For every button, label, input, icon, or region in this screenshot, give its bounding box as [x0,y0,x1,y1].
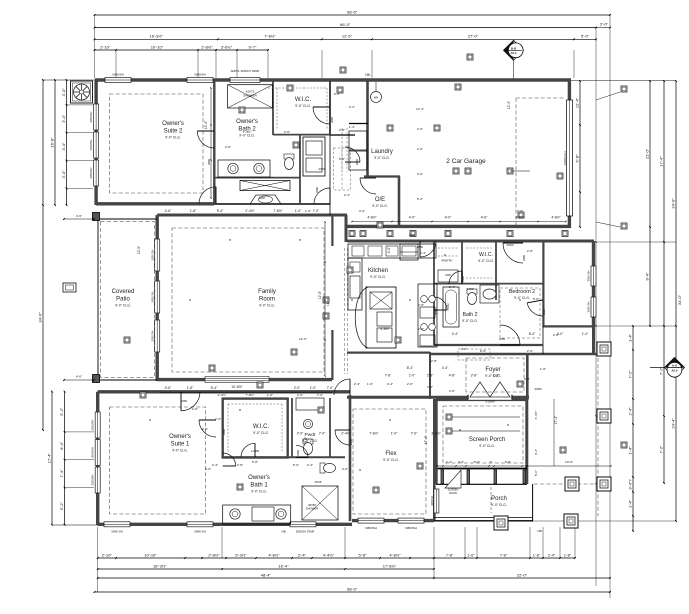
svg-text:4'-8½": 4'-8½" [268,552,280,557]
svg-text:7'-0": 7'-0" [319,432,326,436]
svg-text:3050/SH: 3050/SH [89,140,93,151]
svg-text:2'-4½": 2'-4½" [218,393,227,397]
svg-text:3050 SH: 3050 SH [587,302,591,313]
svg-text:12'-4": 12'-4" [416,107,424,111]
svg-text:10'-10": 10'-10" [144,552,157,557]
svg-text:48'-4": 48'-4" [261,572,272,577]
svg-text:2'-4": 2'-4" [449,285,455,289]
svg-text:8'-4": 8'-4" [407,366,414,370]
svg-text:7'-0": 7'-0" [317,393,323,397]
svg-text:17'-4": 17'-4" [658,156,663,167]
svg-text:2660: 2660 [330,117,334,123]
svg-text:2680: 2680 [499,337,505,341]
svg-text:Pwdr: Pwdr [305,432,316,438]
svg-text:7'-8½": 7'-8½" [246,393,255,397]
svg-text:SHOWER: SHOWER [243,94,257,98]
svg-text:2680: 2680 [207,159,211,165]
svg-text:5'-4": 5'-4" [417,197,423,201]
svg-text:4'-3½": 4'-3½" [534,411,538,420]
svg-text:16'-8": 16'-8" [49,137,54,148]
svg-text:9'-0" CLG.: 9'-0" CLG. [491,503,507,507]
svg-text:3'-4": 3'-4" [61,88,66,97]
svg-text:2660: 2660 [319,167,326,171]
svg-text:3'-4": 3'-4" [61,114,66,123]
svg-text:2880: 2880 [417,245,423,249]
svg-text:9'-0" CLG.: 9'-0" CLG. [253,431,269,435]
svg-text:1'-6": 1'-6" [540,367,546,371]
svg-text:1'-0": 1'-0" [305,209,311,213]
svg-text:34'-0": 34'-0" [37,312,42,323]
svg-text:6": 6" [490,460,493,464]
svg-text:ADDTL 30X60.5 TEMP: ADDTL 30X60.5 TEMP [231,69,260,73]
svg-text:1'-8": 1'-8" [187,386,194,390]
svg-text:1'-0": 1'-0" [295,209,302,213]
svg-text:5'-4": 5'-4" [211,386,218,390]
svg-text:12'-4": 12'-4" [507,100,511,109]
svg-text:4'-8½": 4'-8½" [380,327,390,331]
svg-text:10'-10": 10'-10" [151,44,164,49]
svg-text:17'-4": 17'-4" [554,415,558,424]
svg-text:2'-6": 2'-6" [225,145,231,149]
svg-text:4'-4": 4'-4" [387,382,393,386]
svg-text:4'-0": 4'-0" [445,216,452,220]
svg-text:2460: 2460 [461,276,465,282]
svg-text:4'-8½": 4'-8½" [551,216,561,220]
svg-text:5'-3½": 5'-3½" [235,552,247,557]
svg-text:3050/SH: 3050/SH [365,526,377,530]
svg-text:12'-0": 12'-0" [299,337,307,341]
svg-text:2'-10": 2'-10" [102,552,113,557]
svg-text:1'-0": 1'-0" [391,432,398,436]
svg-text:3050 SH: 3050 SH [151,331,155,342]
svg-text:2'-0": 2'-0" [417,147,423,151]
svg-text:16'-3½": 16'-3½" [153,563,167,568]
svg-text:3'-0": 3'-0" [284,130,290,134]
svg-text:9'-0" CLG.: 9'-0" CLG. [478,259,494,263]
svg-text:1'-8": 1'-8" [533,553,541,557]
svg-text:2'-8": 2'-8" [339,128,345,132]
svg-text:4'-0": 4'-0" [359,209,365,213]
svg-text:Patio: Patio [116,296,130,302]
svg-text:4'-6": 4'-6" [165,209,172,213]
svg-text:9'-0" CLG.: 9'-0" CLG. [374,156,390,160]
svg-text:68'-0": 68'-0" [347,9,358,14]
svg-text:9'-0" CLG.: 9'-0" CLG. [259,303,275,307]
svg-text:Porch: Porch [491,496,507,502]
svg-text:2-2080: 2-2080 [251,449,260,453]
svg-text:7'-0": 7'-0" [411,432,418,436]
svg-text:17'-8½": 17'-8½" [383,563,397,568]
svg-text:24'-0": 24'-0" [670,198,675,209]
svg-text:12'-4": 12'-4" [574,97,579,108]
svg-text:4'-8": 4'-8" [449,374,456,378]
svg-text:3050SH: 3050SH [430,496,434,506]
svg-text:24'-4": 24'-4" [670,418,675,429]
svg-text:7'-8": 7'-8" [500,553,508,557]
svg-text:2'-4": 2'-4" [420,251,426,255]
svg-text:4'-0": 4'-0" [342,467,348,471]
svg-text:1'-6": 1'-6" [467,553,475,557]
svg-text:2'-0": 2'-0" [600,22,609,27]
svg-text:9'-0" CLG.: 9'-0" CLG. [295,104,311,108]
svg-text:2'-4": 2'-4" [446,460,452,464]
svg-text:Bedroom 2: Bedroom 2 [509,289,535,295]
svg-text:3050 SH: 3050 SH [151,292,155,303]
svg-text:Room: Room [259,296,275,302]
svg-text:PANTRY: PANTRY [441,259,452,263]
svg-text:2680: 2680 [542,309,546,315]
svg-text:5'-0": 5'-0" [293,463,299,467]
svg-text:2660: 2660 [507,243,514,247]
svg-text:3040/SH: 3040/SH [194,73,206,77]
svg-text:66'-0": 66'-0" [340,22,351,27]
svg-text:5'-8": 5'-8" [252,460,258,464]
svg-text:10'-8½": 10'-8½" [231,385,243,389]
svg-text:7'-8": 7'-8" [446,553,454,557]
svg-text:2460: 2460 [296,450,300,456]
svg-text:2'-4": 2'-4" [354,382,360,386]
svg-text:3050/SH: 3050/SH [91,420,95,431]
svg-text:W.I.C.: W.I.C. [253,424,270,430]
svg-text:W.I.C.: W.I.C. [295,97,312,103]
svg-text:2680: 2680 [434,309,438,315]
svg-text:2'-0": 2'-0" [527,349,533,353]
svg-text:7'-0": 7'-0" [327,386,334,390]
svg-text:2'-0": 2'-0" [294,386,301,390]
svg-text:2'-0": 2'-0" [297,432,304,436]
svg-text:16'-4": 16'-4" [278,563,289,568]
svg-text:2'-0": 2'-0" [418,327,424,331]
svg-text:Family: Family [258,289,276,295]
svg-text:9'-7": 9'-7" [249,44,258,49]
svg-text:4'-8½": 4'-8½" [367,216,377,220]
svg-text:5'-0": 5'-0" [533,297,539,301]
svg-text:3050/SH TEMP: 3050/SH TEMP [296,530,315,534]
svg-text:3'-0": 3'-0" [524,377,530,381]
svg-text:17'-4": 17'-4" [424,435,428,444]
svg-text:9'-0" CLG.: 9'-0" CLG. [370,275,386,279]
svg-text:Suite 2: Suite 2 [164,128,183,134]
svg-text:9'-0" CLG.: 9'-0" CLG. [372,204,388,208]
svg-text:7'-4½": 7'-4½" [243,130,252,134]
svg-text:3040 SH: 3040 SH [111,530,123,534]
svg-text:8'-4": 8'-4" [644,272,649,281]
svg-text:Laundry: Laundry [371,149,393,155]
svg-text:7'-8½": 7'-8½" [369,432,379,436]
svg-text:2660: 2660 [259,196,265,200]
svg-text:3'-4": 3'-4" [212,463,218,467]
svg-text:2'-4": 2'-4" [458,460,464,464]
svg-text:3'-4"?: 3'-4"? [627,479,632,490]
svg-text:4'-8½": 4'-8½" [515,216,525,220]
svg-text:1'-4": 1'-4" [627,446,632,455]
svg-text:Flex: Flex [385,451,396,457]
svg-text:2680: 2680 [522,255,526,261]
svg-text:2460: 2460 [445,273,451,277]
svg-text:2'-4½": 2'-4½" [341,432,351,436]
svg-text:4'-4": 4'-4" [452,332,459,336]
svg-text:22'-0": 22'-0" [517,572,528,577]
svg-text:4'-6": 4'-6" [76,214,82,218]
svg-text:2'-8": 2'-8" [431,359,437,363]
svg-text:3050/SH: 3050/SH [89,168,93,179]
svg-text:4'-8": 4'-8" [449,389,455,393]
svg-text:9'-0" CLG.: 9'-0" CLG. [251,489,267,493]
svg-text:1'-0": 1'-0" [267,393,273,397]
svg-text:4'-0": 4'-0" [417,127,423,131]
svg-text:7'-2": 7'-2" [658,445,663,454]
svg-text:9'-0" CLG.: 9'-0" CLG. [485,374,501,378]
svg-text:2-2660: 2-2660 [485,400,495,404]
svg-text:9'-0" CLG.: 9'-0" CLG. [383,458,399,462]
svg-text:9'-0" CLG.: 9'-0" CLG. [479,444,495,448]
svg-text:5'-8": 5'-8" [574,154,579,163]
svg-text:1'-4": 1'-4" [627,333,632,342]
svg-text:4'-0": 4'-0" [409,216,416,220]
svg-text:5'-0": 5'-0" [581,34,590,39]
svg-text:2'-0": 2'-0" [215,417,221,421]
svg-text:12'-4": 12'-4" [204,120,208,129]
svg-text:9'-0" CLG.: 9'-0" CLG. [514,296,530,300]
svg-text:2680: 2680 [315,187,319,193]
svg-text:3'-6": 3'-6" [417,172,423,176]
svg-text:4'-6": 4'-6" [481,216,488,220]
svg-text:2'-2": 2'-2" [349,105,355,109]
svg-text:O/E: O/E [375,197,385,203]
svg-text:12'-5": 12'-5" [342,34,353,39]
svg-text:3'-4": 3'-4" [61,170,66,179]
svg-text:2'-8": 2'-8" [527,249,533,253]
svg-text:3050/SH: 3050/SH [89,112,93,123]
svg-text:1'-4": 1'-4" [627,499,632,508]
svg-text:8'-4": 8'-4" [529,332,536,336]
svg-text:4'-4": 4'-4" [442,366,449,370]
svg-text:3'-6½": 3'-6½" [221,44,233,49]
svg-text:8'-0": 8'-0" [480,349,486,353]
svg-text:3050 SH: 3050 SH [151,250,155,261]
svg-text:4545: 4545 [315,480,322,484]
svg-text:8'-4": 8'-4" [59,441,64,450]
svg-text:12'-0": 12'-0" [137,245,141,254]
svg-text:B-B: B-B [511,46,517,50]
svg-text:Owner's: Owner's [169,434,191,440]
svg-text:Screen Porch: Screen Porch [469,437,505,443]
svg-text:10'-8": 10'-8" [565,460,573,464]
svg-text:9'-0": 9'-0" [202,427,208,431]
svg-text:1'-8": 1'-8" [190,209,197,213]
svg-text:2680: 2680 [349,439,353,445]
svg-text:2'-4": 2'-4" [307,463,313,467]
svg-text:2680: 2680 [181,399,187,403]
svg-text:7'-2": 7'-2" [627,370,632,379]
svg-text:4'-6": 4'-6" [76,375,82,379]
svg-text:12'-0": 12'-0" [318,290,322,299]
svg-text:HB.: HB. [537,529,542,533]
svg-text:2'-6": 2'-6" [192,407,198,411]
svg-text:21'-0": 21'-0" [644,148,649,159]
svg-text:A5.0: A5.0 [672,368,678,372]
svg-text:3050 SH: 3050 SH [587,271,591,282]
svg-text:5'-0": 5'-0" [339,157,345,161]
svg-text:2'-8": 2'-8" [427,374,434,378]
svg-text:1'-4": 1'-4" [349,125,355,129]
svg-text:7'-8": 7'-8" [385,374,392,378]
svg-text:2'-4": 2'-4" [298,552,307,557]
svg-text:2460: 2460 [467,287,474,291]
svg-text:A-A: A-A [672,364,678,368]
svg-text:9'-0" CLG.: 9'-0" CLG. [302,439,318,443]
svg-text:9'-0" CLG.: 9'-0" CLG. [172,448,188,452]
svg-text:3050/SH: 3050/SH [91,475,95,486]
svg-text:WH: WH [374,96,378,100]
svg-text:2'-8": 2'-8" [418,303,424,307]
svg-text:1'-4": 1'-4" [582,332,589,336]
svg-text:1'-0": 1'-0" [409,374,416,378]
svg-text:Foyer: Foyer [485,367,500,373]
svg-text:5'-8": 5'-8" [505,460,511,464]
svg-text:2680: 2680 [355,159,359,165]
svg-text:2'-10": 2'-10" [100,44,111,49]
svg-text:4'-0": 4'-0" [461,347,467,351]
svg-text:7'-8½": 7'-8½" [264,34,276,39]
svg-text:2'-0": 2'-0" [553,333,559,337]
svg-text:5'-2": 5'-2" [59,407,64,416]
svg-text:Bath 2: Bath 2 [463,312,478,318]
svg-text:2'-0": 2'-0" [407,382,413,386]
svg-text:5'-0": 5'-0" [474,460,480,464]
svg-text:2680: 2680 [535,387,542,391]
svg-text:3040 SH: 3040 SH [194,530,206,534]
svg-text:2'-4": 2'-4" [548,553,556,557]
svg-text:5'-8": 5'-8" [359,552,368,557]
svg-text:3'-4": 3'-4" [534,449,538,455]
svg-text:Kitchen: Kitchen [368,268,388,274]
svg-text:7'-8½": 7'-8½" [273,209,283,213]
svg-text:2880: 2880 [409,233,415,237]
svg-text:Bath 1: Bath 1 [250,482,268,488]
svg-text:3040/SH: 3040/SH [112,73,124,77]
svg-text:HB.: HB. [281,530,286,534]
svg-text:2'-8": 2'-8" [427,385,433,389]
svg-text:3'-4": 3'-4" [61,142,66,151]
svg-text:16068 O.H.: 16068 O.H. [563,150,567,165]
svg-text:2'-4": 2'-4" [627,407,632,416]
svg-text:3'-6½": 3'-6½" [431,432,441,436]
svg-text:Covered: Covered [112,289,135,295]
svg-text:2'-8½": 2'-8½" [201,44,213,49]
svg-text:1'-6": 1'-6" [367,382,373,386]
svg-text:9'-0" CLG.: 9'-0" CLG. [115,303,131,307]
svg-text:5'-4": 5'-4" [217,209,224,213]
svg-text:3'-0": 3'-0" [205,467,211,471]
svg-text:5'-2": 5'-2" [59,502,64,511]
svg-text:6'-0": 6'-0" [334,92,340,96]
svg-text:2680: 2680 [222,429,226,435]
svg-text:4'-8½": 4'-8½" [389,552,401,557]
svg-text:2'-8½": 2'-8½" [208,552,220,557]
svg-text:W.I.C.: W.I.C. [479,252,493,258]
svg-text:2'-4": 2'-4" [344,193,350,197]
svg-text:5'-0": 5'-0" [534,470,538,476]
svg-text:7'-4": 7'-4" [59,469,64,478]
svg-text:68'-0": 68'-0" [347,586,358,591]
svg-text:2'-8": 2'-8" [237,463,243,467]
svg-text:Owner's: Owner's [162,121,184,127]
svg-text:4'-4½": 4'-4½" [323,552,335,557]
svg-text:17'-4": 17'-4" [46,452,51,463]
svg-text:2 Car Garage: 2 Car Garage [446,158,486,165]
svg-text:9'-0" CLG.: 9'-0" CLG. [165,135,181,139]
svg-text:A5.0: A5.0 [511,51,517,55]
svg-text:34'-0": 34'-0" [677,294,682,305]
svg-text:DOOR: DOOR [449,491,457,495]
svg-text:HB.: HB. [365,73,370,77]
svg-text:1'-8": 1'-8" [564,553,572,557]
svg-text:1'-0": 1'-0" [310,386,317,390]
svg-text:2'-0": 2'-0" [297,393,303,397]
svg-text:4'-0": 4'-0" [387,246,391,253]
svg-text:4'-6": 4'-6" [165,386,172,390]
svg-text:Owner's: Owner's [236,119,258,125]
svg-text:2'-4½": 2'-4½" [245,209,255,213]
svg-text:9'-0" CLG.: 9'-0" CLG. [462,319,478,323]
svg-text:3050/SH: 3050/SH [91,447,95,458]
svg-text:7'-0": 7'-0" [313,209,320,213]
svg-text:3050/SH: 3050/SH [405,526,417,530]
svg-text:7'-0": 7'-0" [517,209,523,213]
svg-text:Suite 1: Suite 1 [171,441,190,447]
svg-text:2'-8": 2'-8" [471,374,478,378]
svg-text:SHOWER: SHOWER [306,507,319,511]
svg-text:16'-3½": 16'-3½" [149,34,163,39]
svg-text:Owner's: Owner's [248,475,270,481]
svg-text:27'-0": 27'-0" [468,34,479,39]
